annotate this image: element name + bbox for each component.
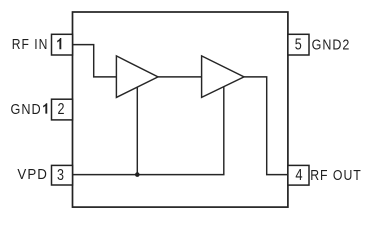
svg-text:5: 5 [295,37,302,54]
pin 1 box [52,34,73,55]
label RF IN (pin 1) [12,36,49,53]
pin 3 box [52,165,73,185]
label GND2 (pin 5) [312,37,351,54]
pin 1 number [57,38,61,49]
pin 2 number [58,101,65,118]
wire A2 output to pin 4 [244,77,288,175]
svg-text:RF IN: RF IN [12,36,49,53]
label GND1 (pin 2) [11,101,48,118]
svg-text:GND: GND [11,101,42,118]
pin 5 number [295,37,302,54]
svg-text:4: 4 [295,167,302,184]
label RF OUT (pin 4) [310,167,362,184]
pin 4 number [295,167,302,184]
svg-text:3: 3 [57,167,64,184]
wire A1 output to A2 input [158,76,202,78]
pin 3 number [57,167,64,184]
amplifier A2 (second stage triangle) [202,56,244,98]
pin 4 box [288,165,309,185]
wire pin1 to A1 input [73,45,117,77]
wire VPD bus from pin 3 to A2 bias [73,87,224,175]
svg-text:2: 2 [58,101,65,118]
svg-text:RF OUT: RF OUT [310,167,362,184]
pin 5 box [288,34,309,55]
pin 2 box [52,99,73,120]
svg-text:VPD: VPD [17,166,48,183]
wire A1 bias tap [136,87,138,175]
junction dot on VPD bus [135,172,140,177]
IC body outline [73,12,288,207]
amplifier A1 (first stage triangle) [116,56,158,98]
label VPD (pin 3) [17,166,48,183]
svg-text:GND2: GND2 [312,37,351,54]
